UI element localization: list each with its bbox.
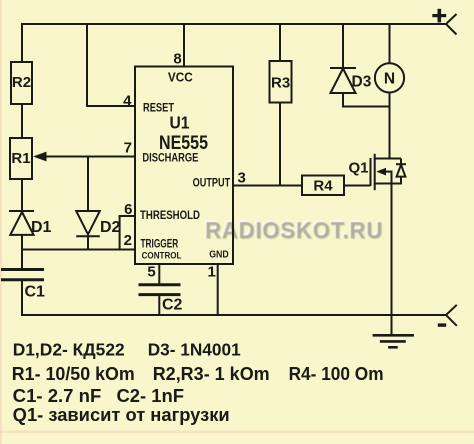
wire D2 to trigger net <box>87 236 89 250</box>
wire D3 to motor bottom node <box>342 106 390 108</box>
svg-text:R1: R1 <box>11 150 30 167</box>
wiper arrowhead on R1 <box>33 152 47 162</box>
svg-text:Q1- зависит от нагрузки: Q1- зависит от нагрузки <box>13 405 230 425</box>
wire motor to Q1 drain <box>389 92 391 159</box>
svg-text:Q1: Q1 <box>349 160 369 177</box>
wire threshold branch vertical <box>119 215 121 250</box>
capacitor C1 plates <box>1 270 44 280</box>
wire rail to R3 <box>279 23 281 62</box>
svg-text:D3- 1N4001: D3- 1N4001 <box>148 339 241 359</box>
diode D2 <box>76 211 100 236</box>
wire Q1 source to bottom rail and ground <box>391 184 393 336</box>
wire trigger net horizontal to pin 2 <box>22 249 135 251</box>
svg-text:CONTROL: CONTROL <box>142 251 182 261</box>
svg-text:THRESHOLD: THRESHOLD <box>140 210 200 222</box>
wire R2 to R1 <box>21 104 23 139</box>
wire D1 to trigger node <box>21 234 23 251</box>
wire pin 5 to C2 <box>158 264 160 285</box>
resistor R2 body <box>11 62 32 104</box>
svg-text:C2- 1nF: C2- 1nF <box>117 386 185 406</box>
ground symbol <box>373 335 414 347</box>
svg-text:4: 4 <box>123 93 132 110</box>
svg-text:N: N <box>384 71 395 88</box>
svg-text:DISCHARGE: DISCHARGE <box>142 153 198 165</box>
svg-text:OUTPUT: OUTPUT <box>193 177 231 189</box>
svg-text:D2: D2 <box>100 219 121 236</box>
wire R4 to Q1 gate <box>344 185 371 187</box>
transistor Q1 N-MOSFET <box>371 154 407 190</box>
svg-text:R4- 100 Om: R4- 100 Om <box>289 364 384 384</box>
svg-text:C2: C2 <box>162 297 183 314</box>
wire pin 1 GND to bottom rail <box>217 264 219 316</box>
svg-text:8: 8 <box>173 51 181 68</box>
capacitor C2 plates <box>139 285 181 295</box>
resistor R1 body <box>10 138 32 179</box>
watermark RADIOSKOT.RU <box>204 216 384 244</box>
wire discharge pin 7 with wiper arrow to R1 <box>36 156 135 158</box>
motor N circle <box>375 63 404 92</box>
diode D1 <box>9 211 34 235</box>
svg-text:1: 1 <box>208 264 216 281</box>
svg-text:U1: U1 <box>170 113 190 133</box>
wire R3 to output net <box>279 103 281 186</box>
svg-text:7: 7 <box>124 140 132 157</box>
svg-text:R2,R3- 1 kOm: R2,R3- 1 kOm <box>153 364 270 384</box>
svg-text:C1: C1 <box>25 284 46 301</box>
svg-text:R3: R3 <box>271 74 290 91</box>
wire trigger node to C1 <box>21 250 23 270</box>
wire rail to D3 <box>342 23 344 68</box>
value label line D1,D2 <box>13 339 241 359</box>
wire output pin 3 to R4 <box>233 185 302 187</box>
svg-text:D1,D2- КД522: D1,D2- КД522 <box>13 339 125 359</box>
terminal - (connector fork) <box>446 305 457 326</box>
wire bottom rail <box>21 314 446 316</box>
svg-text:TRIGGER: TRIGGER <box>141 239 179 251</box>
svg-text:D1: D1 <box>31 219 52 236</box>
wire rail to R2 <box>21 23 23 63</box>
svg-text:D3: D3 <box>352 74 372 91</box>
resistor R4 body <box>302 176 344 196</box>
svg-text:GND: GND <box>209 249 229 261</box>
svg-text:2: 2 <box>124 232 132 249</box>
wire rail to reset branch <box>86 23 88 107</box>
svg-text:NE555: NE555 <box>159 132 208 154</box>
wire R1 to D1 <box>21 179 23 212</box>
svg-text:R4: R4 <box>313 177 333 194</box>
svg-text:5: 5 <box>147 264 155 281</box>
wire pin 8 VCC to rail <box>183 23 185 67</box>
wire D3 anode down <box>342 93 344 108</box>
wire top +V rail <box>21 23 446 25</box>
value label line R1 R2 R3 R4 <box>12 364 384 384</box>
resistor R3 body <box>270 61 292 103</box>
value label line C1 C2 <box>13 386 184 406</box>
svg-text:R2: R2 <box>12 74 31 91</box>
terminal + (connector fork) <box>446 14 457 35</box>
svg-text:6: 6 <box>124 201 132 218</box>
label + <box>432 9 446 23</box>
wire D2 branch from discharge net <box>87 157 89 213</box>
svg-text:C1- 2.7 nF: C1- 2.7 nF <box>13 386 102 406</box>
wire reset branch to pin 4 <box>86 105 135 107</box>
svg-text:RADIOSKOT.RU: RADIOSKOT.RU <box>205 217 383 243</box>
wire rail to motor N <box>389 23 391 64</box>
diode D3 <box>330 68 356 93</box>
wire threshold branch to pin 6 <box>119 215 135 217</box>
svg-text:VCC: VCC <box>168 70 193 85</box>
IC U1 NE555 body <box>135 67 233 265</box>
label - <box>438 323 446 326</box>
wire C2 to bottom rail <box>158 295 160 316</box>
wire C1 to bottom rail <box>21 281 23 316</box>
svg-text:3: 3 <box>238 170 246 187</box>
svg-text:R1- 10/50 kOm: R1- 10/50 kOm <box>12 364 135 384</box>
